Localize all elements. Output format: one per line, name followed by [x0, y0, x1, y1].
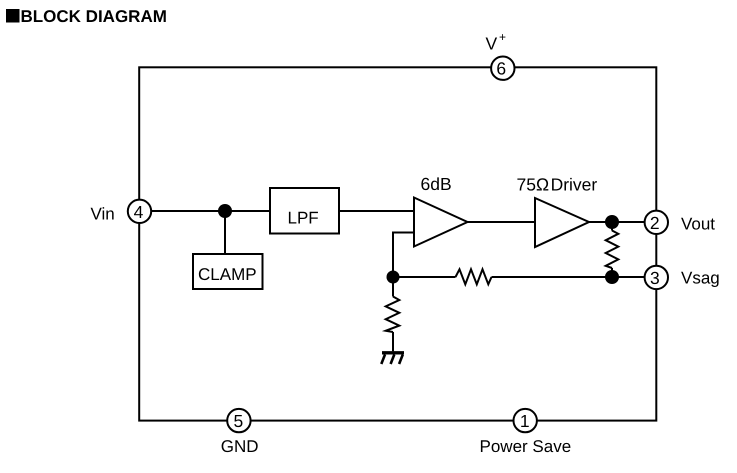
pin 2 circle	[645, 211, 668, 234]
svg-text:4: 4	[134, 202, 144, 222]
op-amp 75 ohm driver	[535, 198, 589, 247]
junction feedback node	[387, 271, 400, 284]
junction Vout node	[605, 215, 619, 229]
svg-text:6dB: 6dB	[421, 174, 452, 194]
wire Vin pin to LPF	[139, 210, 270, 212]
wire LPF to 6dB amp	[339, 210, 414, 212]
svg-text:BLOCK DIAGRAM: BLOCK DIAGRAM	[21, 7, 167, 26]
pin 6 circle	[491, 56, 514, 79]
wire 6dB amp to driver	[468, 221, 536, 223]
pin 1 circle	[514, 409, 537, 432]
wire feedback node to ground resistor	[392, 277, 394, 297]
wire resistor to ground	[392, 332, 394, 351]
wire driver to Vout pin	[589, 221, 656, 223]
svg-text:GND: GND	[221, 437, 259, 456]
wire Vsag node to pin 3	[612, 276, 656, 278]
svg-text:Power Save: Power Save	[480, 437, 572, 456]
wire feedback node to amp lower input	[393, 233, 414, 278]
svg-text:Vout: Vout	[681, 215, 715, 234]
svg-text:CLAMP: CLAMP	[198, 265, 257, 284]
svg-text:V: V	[486, 34, 498, 54]
svg-text:1: 1	[520, 411, 530, 431]
pin 5 circle	[227, 409, 250, 432]
title BLOCK DIAGRAM	[6, 7, 167, 26]
wire feedback resistor to feedback node	[393, 276, 456, 278]
pin 4 circle	[128, 200, 151, 223]
wire Vin node to CLAMP	[224, 211, 226, 254]
op-amp 6dB amplifier	[414, 198, 468, 247]
resistor Vout-Vsag	[606, 222, 619, 277]
block LPF	[270, 188, 339, 234]
pin 3 circle	[645, 266, 668, 289]
junction Vsag node	[605, 270, 619, 284]
svg-text:5: 5	[234, 411, 244, 431]
svg-text:6: 6	[496, 59, 506, 79]
svg-text:+: +	[499, 30, 506, 44]
IC boundary box	[139, 67, 656, 420]
svg-text:2: 2	[650, 213, 660, 233]
resistor feedback	[456, 269, 492, 284]
svg-text:LPF: LPF	[288, 209, 319, 228]
junction Vin node	[218, 204, 232, 218]
resistor to ground	[386, 297, 400, 333]
ground	[381, 353, 404, 364]
svg-text:Vsag: Vsag	[681, 269, 720, 288]
block CLAMP	[193, 254, 263, 289]
svg-text:3: 3	[650, 268, 660, 288]
wire Vsag node to feedback resistor	[492, 276, 613, 278]
svg-text:75ΩDriver: 75ΩDriver	[517, 175, 598, 195]
svg-text:Vin: Vin	[91, 205, 115, 224]
